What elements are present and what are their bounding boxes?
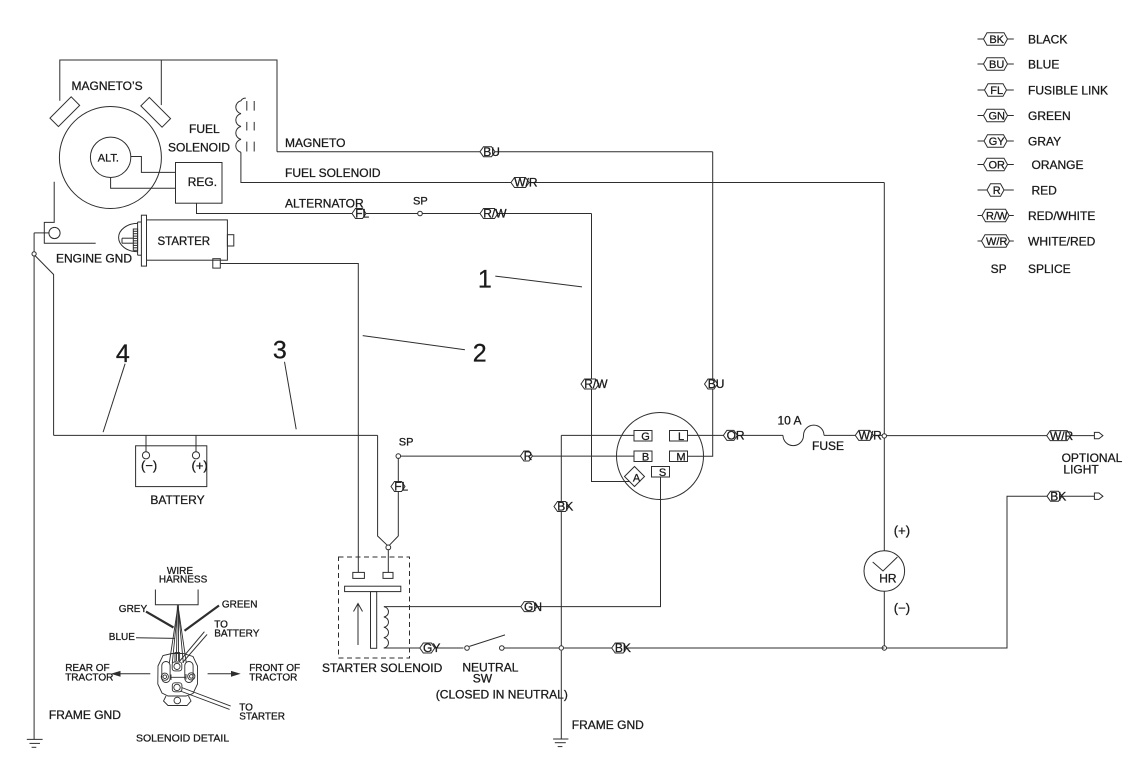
svg-text:STARTER: STARTER (158, 236, 211, 248)
wire BK to optional light (884, 496, 1094, 648)
wire starter to solenoid (220, 264, 358, 573)
wire R from splice to terminal B (401, 455, 634, 457)
key switch circle (617, 413, 704, 500)
svg-text:4: 4 (116, 340, 130, 368)
frame ground symbol (mid) (553, 739, 568, 747)
wire tag GY (neutral circuit) (420, 641, 441, 655)
label GREEN (185, 600, 258, 631)
svg-text:GRAY: GRAY (1028, 134, 1061, 148)
legend tag BU (978, 57, 1060, 71)
svg-text:R/W: R/W (483, 207, 507, 221)
key switch terminal B (634, 451, 652, 464)
svg-text:SOLENOID: SOLENOID (168, 140, 230, 154)
junction to starter solenoid (386, 545, 391, 572)
label GREY (119, 604, 174, 628)
starter motor body (138, 215, 228, 266)
wire GY coil to neutral switch (384, 647, 464, 649)
wire W/R vertical feed (883, 183, 885, 436)
svg-text:BK: BK (615, 641, 631, 655)
wire W/R to optional light (887, 435, 1095, 437)
magneto enclosure box (60, 60, 277, 152)
cable to starter (180, 688, 230, 710)
regulator REG. box (176, 163, 223, 204)
battery positive terminal (192, 435, 208, 472)
solenoid terminal left (353, 572, 365, 578)
wire fuse to junction (W/R) (824, 434, 884, 436)
starter solenoid terminal (right) (227, 235, 233, 246)
wire tag W/R (after fuse) (855, 429, 882, 443)
key switch terminal M (670, 451, 688, 464)
label FUEL SOLENOID (component) (168, 122, 230, 154)
wire tag FL (battery drop) (391, 480, 409, 494)
cable to battery (180, 632, 207, 663)
svg-text:ORANGE: ORANGE (1032, 158, 1084, 172)
connector small pin left (161, 673, 168, 680)
svg-text:OR: OR (727, 429, 745, 443)
wire tag GN (start signal) (521, 600, 542, 614)
legend tag BK (978, 32, 1068, 46)
splice dot on ground lead (32, 252, 36, 256)
svg-text:RED: RED (1032, 183, 1058, 197)
svg-text:MAGNETO: MAGNETO (285, 136, 345, 150)
svg-text:BATTERY: BATTERY (150, 493, 204, 507)
wire R/W to terminal A (592, 214, 630, 482)
callout 4 (103, 340, 130, 432)
key switch terminal L (670, 431, 688, 444)
junction BK node (left) (559, 646, 563, 650)
svg-text:STARTER: STARTER (239, 712, 285, 723)
fuel solenoid coil (236, 98, 246, 152)
legend tag W/R (978, 234, 1096, 248)
wire tag BK (switch ground) (554, 500, 573, 514)
svg-text:(−): (−) (141, 458, 157, 473)
svg-text:L: L (678, 431, 684, 443)
svg-text:GREEN: GREEN (222, 600, 258, 611)
svg-text:FUEL SOLENOID: FUEL SOLENOID (285, 166, 381, 180)
svg-text:RED/WHITE: RED/WHITE (1028, 209, 1095, 223)
svg-text:BU: BU (708, 377, 725, 391)
svg-text:GY: GY (989, 136, 1006, 148)
key switch terminal A (diamond) (625, 467, 645, 487)
svg-text:A: A (633, 473, 641, 485)
svg-text:FUSIBLE LINK: FUSIBLE LINK (1028, 83, 1108, 97)
svg-text:BK: BK (557, 500, 573, 514)
solenoid plunger T-bar (345, 586, 401, 648)
svg-text:BLUE: BLUE (1028, 57, 1059, 71)
callout 1 (478, 266, 582, 294)
wire FUEL SOLENOID (W/R) (241, 152, 884, 182)
wire engine ground down-lead (34, 233, 49, 740)
wire hour meter to ground line (883, 591, 885, 648)
svg-text:(+): (+) (192, 458, 208, 473)
fuse 10A symbol (783, 425, 824, 446)
neutral switch (465, 635, 505, 650)
svg-text:(+): (+) (894, 523, 910, 538)
svg-text:ALT.: ALT. (98, 153, 119, 165)
wire tag R/W (ignition feed) (581, 377, 608, 391)
frame ground symbol (left) (27, 739, 43, 747)
svg-text:FL: FL (355, 207, 369, 221)
svg-text:ALTERNATOR: ALTERNATOR (285, 196, 364, 210)
junction BK node (right) (882, 646, 886, 650)
svg-text:R: R (524, 449, 533, 463)
svg-text:GN: GN (524, 600, 542, 614)
svg-text:B: B (642, 452, 649, 464)
wire tag W/R (fuel solenoid wire) (511, 176, 538, 190)
wire tag BU (magneto wire) (480, 145, 500, 159)
harness bracket (155, 590, 198, 605)
starter pinion gear teeth (133, 229, 137, 250)
wire tag W/R (optional light) (1047, 429, 1074, 443)
svg-text:SP: SP (413, 196, 428, 208)
svg-text:BATTERY: BATTERY (214, 629, 260, 640)
legend SP SPLICE (991, 262, 1071, 276)
starter solenoid dashed box (339, 557, 410, 658)
engine ground connector circle (49, 227, 60, 238)
solenoid travel arrow (354, 604, 363, 646)
wire tag R/W (alternator wire) (480, 207, 507, 221)
svg-text:R/W: R/W (584, 377, 608, 391)
label TO BATTERY (214, 619, 260, 639)
wire tag BK (optional light) (1047, 489, 1066, 503)
wire tag BK (ground bus) (612, 641, 631, 655)
key switch terminal G (634, 431, 652, 444)
svg-text:1: 1 (478, 266, 492, 294)
svg-text:S: S (659, 467, 666, 479)
solenoid connector body (158, 654, 198, 706)
connector pin arrow (BK) (1094, 493, 1103, 499)
wire tag OR (light feed) (723, 429, 745, 443)
svg-text:REG.: REG. (188, 175, 217, 189)
wire terminal G to ground lead (561, 434, 634, 436)
svg-text:SP: SP (399, 437, 414, 449)
connector index notch (171, 674, 186, 680)
svg-text:FUEL: FUEL (189, 122, 220, 136)
wire terminal L to fuse (OR) (688, 434, 784, 436)
svg-text:3: 3 (273, 337, 287, 365)
battery negative terminal (141, 435, 157, 472)
magneto magnet right (141, 97, 171, 127)
harness wires funnel (169, 605, 186, 663)
wire 4 branch to battery negative (35, 256, 54, 436)
solenoid terminal right (383, 572, 393, 578)
svg-text:GN: GN (988, 111, 1005, 123)
callout 2 (363, 336, 487, 368)
hour meter HR (864, 551, 905, 592)
engine ground bracket (44, 182, 95, 244)
svg-text:WHITE/RED: WHITE/RED (1028, 234, 1096, 248)
svg-text:TRACTOR: TRACTOR (249, 673, 297, 684)
svg-text:TRACTOR: TRACTOR (65, 673, 113, 684)
legend tag GY (978, 134, 1062, 148)
junction W/R node (882, 434, 886, 438)
fuel solenoid core dashes (247, 101, 254, 152)
alternator ALT. circle (90, 137, 130, 177)
svg-text:MAGNETO’S: MAGNETO’S (72, 79, 143, 93)
svg-text:GY: GY (423, 641, 440, 655)
svg-text:G: G (641, 431, 650, 443)
svg-text:STARTER SOLENOID: STARTER SOLENOID (322, 661, 443, 675)
connector terminal top (to battery) (172, 662, 182, 671)
wire terminal S to solenoid GN (384, 477, 661, 607)
splice SP (battery feed) (396, 437, 413, 459)
key switch terminal S (652, 467, 670, 480)
legend tag GN (978, 109, 1071, 123)
label TO STARTER (239, 702, 285, 722)
label WIRE HARNESS (159, 566, 208, 586)
splice SP on alternator wire (413, 196, 428, 216)
svg-text:BU: BU (989, 59, 1004, 71)
svg-text:BLACK: BLACK (1028, 32, 1067, 46)
svg-text:FL: FL (990, 85, 1003, 97)
svg-text:SOLENOID DETAIL: SOLENOID DETAIL (136, 733, 229, 745)
legend tag OR (978, 158, 1084, 172)
connector small pin right (188, 673, 195, 680)
wire tag FL (alternator wire) (352, 207, 370, 221)
wire BK ground bus (564, 647, 884, 649)
legend tag R (978, 183, 1058, 197)
svg-text:W/R: W/R (1050, 429, 1074, 443)
magneto magnet left (50, 97, 80, 127)
svg-text:W/R: W/R (514, 176, 538, 190)
svg-text:SP: SP (991, 262, 1007, 276)
svg-text:OR: OR (988, 160, 1005, 172)
legend tag FL (978, 83, 1109, 97)
label BLUE (109, 632, 175, 643)
svg-text:2: 2 (473, 340, 487, 368)
svg-text:M: M (676, 452, 685, 464)
label REAR OF TRACTOR (65, 663, 150, 683)
svg-text:HARNESS: HARNESS (159, 575, 208, 586)
starter shaft (122, 238, 133, 243)
label NEUTRAL SW (462, 660, 518, 685)
svg-text:BK: BK (989, 34, 1004, 46)
svg-text:BK: BK (1050, 489, 1066, 503)
svg-text:LIGHT: LIGHT (1063, 462, 1099, 476)
svg-text:BLUE: BLUE (109, 632, 135, 643)
label FRONT OF TRACTOR (208, 663, 301, 683)
svg-text:SW: SW (473, 672, 493, 686)
wire MAGNETO (BU) (277, 151, 713, 153)
svg-text:10 A: 10 A (778, 413, 802, 427)
wire ALT to REG lower (111, 178, 176, 189)
svg-text:ENGINE GND: ENGINE GND (56, 252, 132, 266)
starter bell housing (119, 223, 138, 251)
svg-text:R: R (993, 185, 1001, 197)
svg-text:GREEN: GREEN (1028, 109, 1071, 123)
solenoid coil (384, 607, 389, 648)
label OPTIONAL LIGHT (1062, 451, 1123, 476)
wire BU to terminal M (688, 152, 713, 457)
connector bottom pin (174, 697, 181, 704)
connector side lobes (162, 662, 193, 683)
wire neutral switch to ground node (504, 647, 561, 649)
svg-text:FUSE: FUSE (812, 439, 844, 453)
connector pin arrow (W/R) (1094, 432, 1103, 438)
battery box (136, 446, 207, 487)
svg-text:(CLOSED IN NEUTRAL): (CLOSED IN NEUTRAL) (436, 688, 568, 702)
svg-text:R/W: R/W (986, 211, 1008, 223)
svg-text:SPLICE: SPLICE (1028, 262, 1071, 276)
wire ALTERNATOR (R/W) (197, 203, 592, 213)
svg-text:(−): (−) (894, 600, 910, 615)
legend tag R/W (978, 209, 1096, 223)
wire tag BU (magneto to switch) (705, 377, 725, 391)
connector terminal bottom (to starter) (172, 683, 182, 692)
starter cable terminal (bottom) (213, 259, 221, 268)
svg-text:FRAME GND: FRAME GND (49, 708, 121, 722)
svg-text:FRAME GND: FRAME GND (572, 718, 644, 732)
svg-text:HR: HR (879, 571, 897, 585)
wire tag R (battery to switch) (520, 449, 532, 463)
wire battery positive to solenoid (378, 435, 388, 545)
svg-text:W/R: W/R (986, 236, 1007, 248)
callout 3 (273, 337, 296, 430)
wire BK ground lead (switch) (560, 435, 562, 647)
svg-text:BU: BU (483, 145, 500, 159)
wire battery bus (54, 434, 378, 436)
svg-text:W/R: W/R (859, 429, 883, 443)
wire W/R junction to hour meter (883, 438, 885, 550)
svg-text:FL: FL (394, 480, 408, 494)
wire SP down through fusible link (389, 458, 398, 545)
svg-text:GREY: GREY (119, 604, 148, 615)
flywheel circle (59, 107, 161, 209)
wire ALT to REG upper (131, 157, 176, 173)
wire to frame ground (mid) (560, 651, 562, 739)
